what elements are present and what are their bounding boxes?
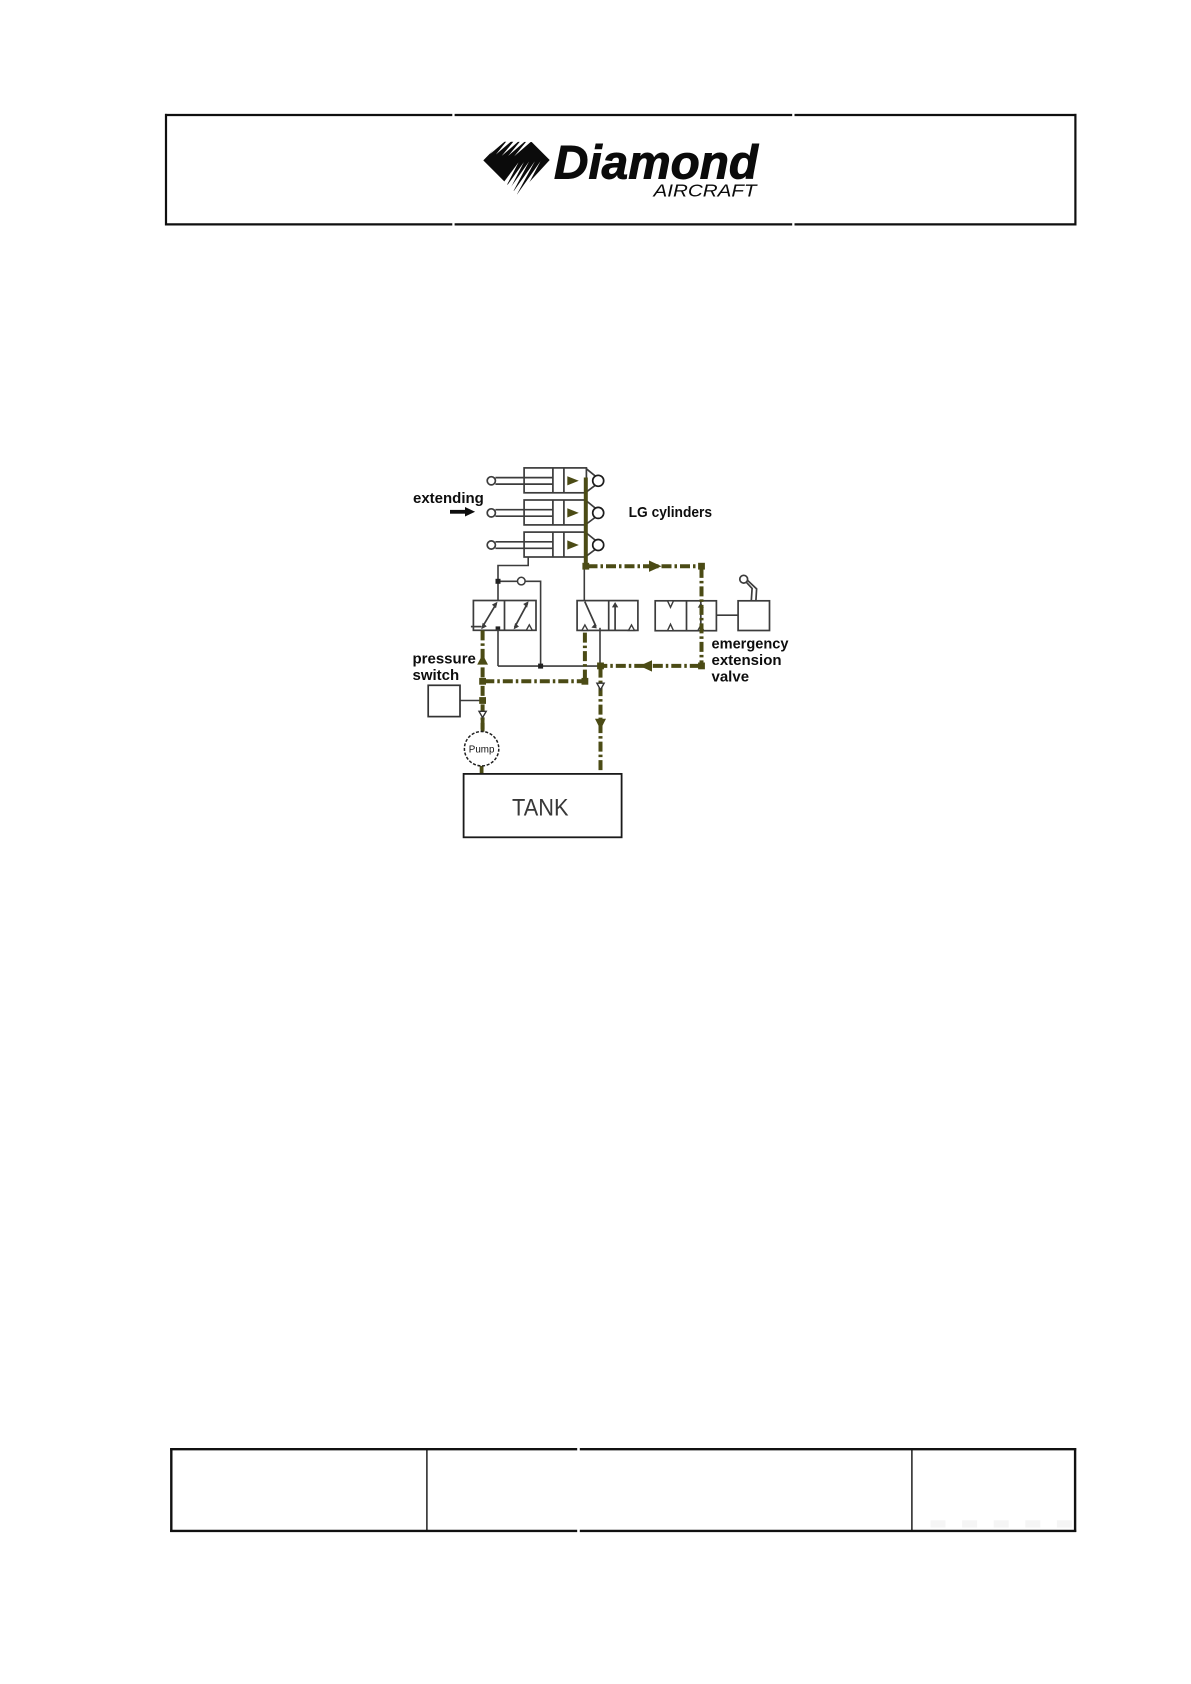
svg-text:emergency: emergency — [712, 635, 790, 652]
svg-text:AIRCRAFT: AIRCRAFT — [652, 181, 758, 201]
svg-text:extension: extension — [712, 652, 782, 669]
svg-text:pressure: pressure — [413, 651, 476, 668]
svg-text:switch: switch — [413, 667, 460, 684]
svg-text:valve: valve — [712, 669, 750, 686]
svg-text:Pump: Pump — [469, 744, 495, 755]
svg-text:extending: extending — [413, 490, 484, 507]
svg-text:TANK: TANK — [512, 795, 569, 822]
svg-text:LG cylinders: LG cylinders — [629, 504, 713, 521]
